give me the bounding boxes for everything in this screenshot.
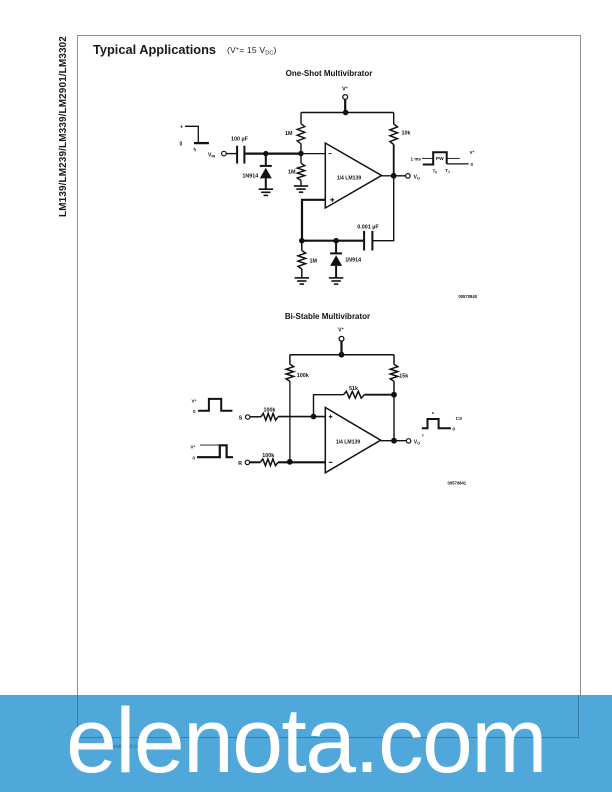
pin minus	[329, 461, 333, 463]
wire R to R9	[250, 461, 261, 463]
input waveform (falling step)	[180, 125, 209, 153]
wire V+ stub	[344, 99, 346, 112]
wire R4 to ground	[301, 269, 303, 278]
svg-text:One-Shot Multivibrator: One-Shot Multivibrator	[286, 69, 373, 78]
resistor R7 51k	[343, 391, 364, 398]
svg-text:VO: VO	[414, 174, 420, 180]
node plus-input junction	[311, 414, 317, 420]
svg-text:1M: 1M	[285, 131, 293, 137]
wire D2 to ground	[335, 266, 337, 278]
node VO junction	[391, 173, 397, 179]
svg-text:15k: 15k	[399, 374, 408, 380]
op-amp U2 1/4 LM139	[325, 408, 380, 473]
node V+ rail junction	[343, 110, 349, 116]
wire node A to D1	[265, 154, 267, 166]
svg-text:T0: T0	[433, 169, 438, 175]
svg-text:R: R	[238, 461, 242, 467]
ground G2	[294, 186, 308, 192]
wire R6 to feedback node	[393, 381, 395, 394]
wire D1 to ground	[265, 178, 267, 189]
wire VIN to C1	[226, 153, 237, 155]
svg-text:0.001 µF: 0.001 µF	[357, 225, 379, 231]
resistor R6 15k	[390, 364, 398, 381]
svg-text:V+: V+	[192, 399, 197, 404]
wire C1 to node A	[244, 153, 301, 155]
diode D1 (1N914)	[242, 166, 271, 179]
wire R8 to plus input	[278, 416, 325, 418]
wire R5 to R-input node	[289, 381, 291, 462]
svg-text:1M: 1M	[310, 258, 318, 264]
svg-text:100k: 100k	[264, 408, 276, 414]
wire comparator plus input	[302, 200, 325, 241]
svg-text:Bi-Stable Multivibrator: Bi-Stable Multivibrator	[285, 312, 370, 321]
node R input terminal	[238, 460, 249, 467]
node rail junction (c2)	[339, 352, 345, 358]
power V+ terminal	[342, 86, 348, 99]
node A junction	[263, 151, 268, 156]
title supply note	[227, 45, 277, 57]
ground G4	[329, 278, 343, 284]
svg-text:t: t	[422, 433, 424, 438]
wire V+ rail (c2)	[290, 354, 394, 356]
resistor R4 1M	[298, 251, 306, 270]
diode D2 (1N914)	[330, 253, 361, 266]
svg-text:V+: V+	[338, 327, 344, 334]
ground G3	[295, 278, 309, 284]
wire S to R8	[250, 416, 261, 418]
node VIN input terminal	[208, 151, 226, 158]
wire output column to C2	[372, 176, 393, 241]
wire rail to R6	[393, 355, 395, 365]
svg-text:+: +	[180, 125, 183, 131]
wire rail to R5	[289, 355, 291, 365]
svg-text:100k: 100k	[262, 453, 274, 459]
ground G1	[259, 189, 273, 195]
svg-text:PW: PW	[436, 156, 444, 162]
svg-text:00570840: 00570840	[458, 294, 477, 299]
svg-text:0: 0	[180, 142, 183, 148]
wire R2 to ground	[300, 181, 302, 187]
node VO junction (c2)	[391, 438, 397, 444]
wire R3 to output node	[393, 145, 395, 176]
pin minus	[329, 153, 332, 155]
resistor R8 100k	[261, 413, 278, 420]
svg-text:00570841: 00570841	[448, 481, 467, 486]
node VO output terminal	[406, 174, 420, 181]
power V+ terminal (c2)	[338, 327, 344, 341]
resistor R2 1M	[297, 163, 305, 180]
op-amp U1 1/4 LM139	[325, 143, 381, 208]
wire feedback node to output	[393, 395, 395, 441]
svg-text:10k: 10k	[402, 131, 411, 137]
wire feedback left leg	[314, 395, 344, 417]
wire R7 to feedback node	[364, 394, 394, 396]
svg-text:1/4 LM139: 1/4 LM139	[337, 176, 362, 182]
svg-text:100 µF: 100 µF	[231, 137, 249, 143]
svg-text:VIN: VIN	[208, 153, 216, 159]
wire node D to D2	[335, 241, 337, 254]
pin plus	[330, 198, 334, 202]
wire rail to R1	[300, 113, 302, 124]
wire plus-input node line	[302, 240, 364, 242]
svg-text:100k: 100k	[297, 373, 309, 379]
node B junction	[298, 151, 303, 156]
svg-text:t=0: t=0	[456, 416, 463, 421]
resistor R3 10k	[390, 124, 398, 145]
content box border	[77, 35, 581, 739]
svg-text:T1: T1	[445, 168, 450, 174]
svg-text:51k: 51k	[349, 386, 358, 392]
node D junction	[333, 238, 339, 244]
S input waveform	[192, 399, 233, 415]
sidebar part number (rotated)	[58, 35, 69, 217]
page title	[93, 42, 216, 57]
svg-text:VO: VO	[414, 440, 420, 446]
svg-text:1M: 1M	[288, 169, 296, 175]
svg-text:V+: V+	[470, 150, 475, 155]
svg-text:s: s	[432, 410, 435, 415]
node C junction	[299, 238, 305, 244]
svg-text:0: 0	[471, 162, 474, 167]
node S input terminal	[239, 415, 250, 422]
svg-text:0: 0	[193, 409, 196, 414]
resistor R9 100k	[260, 459, 278, 466]
pin plus	[329, 415, 333, 419]
wire V+ rail	[301, 112, 394, 114]
resistor R5 100k	[286, 364, 294, 381]
svg-text:V+: V+	[342, 86, 348, 93]
R input waveform	[191, 445, 234, 461]
wire R1 to node B	[300, 144, 302, 154]
wire R9 to minus input	[278, 461, 325, 463]
node feedback junction	[391, 392, 397, 398]
svg-text:tf: tf	[194, 147, 198, 153]
wire U1 output	[382, 175, 406, 177]
svg-text:1 ms: 1 ms	[411, 156, 422, 161]
node VO output terminal (c2)	[406, 439, 420, 446]
capacitor C2 0.001 uF	[357, 225, 379, 251]
node minus-input junction	[287, 459, 293, 465]
output waveform (c2)	[422, 410, 463, 438]
svg-text:S: S	[239, 416, 243, 422]
elenota watermark banner	[0, 695, 612, 792]
capacitor C1 100 uF	[231, 137, 249, 164]
wire U2 output	[381, 440, 407, 442]
svg-text:0: 0	[193, 456, 196, 461]
output waveform (pulse PW)	[411, 150, 475, 175]
svg-text:1/4 LM139: 1/4 LM139	[336, 440, 361, 446]
svg-text:1N914: 1N914	[345, 257, 361, 263]
svg-text:1N914: 1N914	[242, 173, 258, 179]
wire V+ stub (c2)	[340, 341, 342, 355]
svg-text:V+: V+	[191, 445, 196, 450]
svg-text:0: 0	[453, 426, 456, 431]
resistor R1 1M	[297, 124, 305, 144]
wire node B to comparator minus input	[301, 153, 325, 155]
wire rail to R3	[393, 113, 395, 125]
